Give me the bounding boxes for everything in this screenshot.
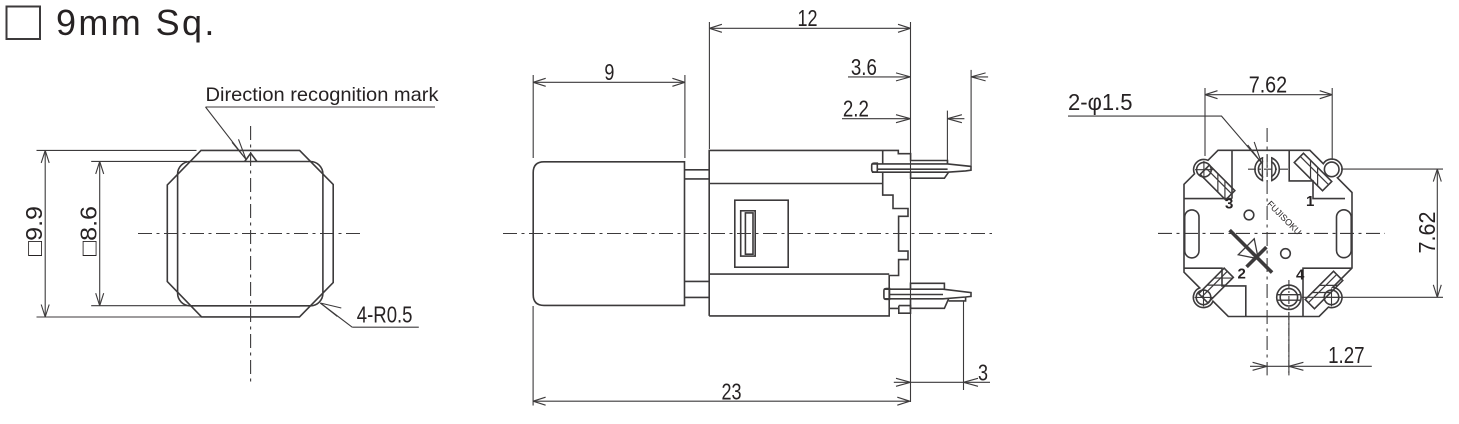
svg-text:23: 23	[722, 378, 742, 404]
svg-text:□9.9: □9.9	[21, 206, 47, 256]
bottom terminal plate above	[911, 283, 945, 289]
svg-text:1.27: 1.27	[1328, 342, 1365, 368]
svg-text:3: 3	[978, 359, 988, 385]
direction recognition mark triangle	[245, 153, 257, 161]
main octagon outline	[1184, 150, 1352, 316]
dim 7.62 top line	[1205, 94, 1332, 96]
pad 4 hatched	[1305, 271, 1342, 308]
dim 8.6 extension bottom	[91, 305, 187, 307]
header square symbol	[7, 7, 41, 40]
pad 1 hatched	[1294, 153, 1331, 190]
corner plateau TL	[1184, 150, 1232, 198]
vertical centerline	[250, 126, 252, 385]
horizontal centerline	[1158, 232, 1385, 234]
dim 12 ext left	[708, 22, 710, 149]
top terminal plate below	[911, 172, 949, 178]
dim 8.6 line with arrows	[99, 161, 101, 305]
vertical centerline	[1266, 128, 1268, 375]
svg-text:9: 9	[604, 59, 614, 85]
svg-text:4-R0.5: 4-R0.5	[357, 301, 413, 327]
bottom terminal tip notch	[949, 297, 966, 301]
svg-text:9mm Sq.: 9mm Sq.	[56, 2, 217, 43]
dim 23 ext left	[532, 306, 534, 406]
leader 2-phi1.5	[1068, 116, 1261, 162]
left oval slot	[1185, 210, 1199, 258]
corner circle pin4	[1324, 290, 1339, 305]
corner circle pin3	[1197, 162, 1212, 177]
body divider bottom	[709, 273, 889, 275]
dim 3.6 line	[848, 76, 988, 78]
body inner slider	[741, 211, 756, 256]
dim 9 ext lines	[533, 75, 685, 158]
bottom terminal inner line	[890, 294, 944, 296]
button cap rounded square	[178, 162, 323, 306]
svg-text:12: 12	[798, 5, 818, 31]
body outline	[709, 150, 947, 316]
pad 2 hatched	[1199, 268, 1234, 303]
long extension line at body right	[910, 22, 912, 402]
dim 7.62 right line	[1436, 169, 1438, 297]
horizontal centerline	[138, 233, 360, 235]
body inner window	[735, 200, 788, 267]
dim 7.62 right ext lines	[1302, 169, 1443, 297]
svg-text:4: 4	[1296, 267, 1305, 284]
bottom terminal plate below	[911, 299, 949, 309]
right oval slot	[1337, 210, 1352, 258]
svg-text:Direction recognition mark: Direction recognition mark	[206, 84, 439, 106]
dim 2.2 right ext	[946, 111, 948, 164]
dim 3.6 right ext	[970, 70, 972, 166]
top terminal hook	[872, 163, 878, 172]
corner plateau BL staircase	[1184, 268, 1246, 316]
dim 23 line	[533, 400, 910, 402]
horizontal centerline	[503, 233, 992, 235]
dim 3 line	[894, 381, 990, 383]
bottom screw vertical centerline	[1288, 280, 1290, 375]
dim 7.62 top ext lines	[1205, 88, 1332, 160]
small circle A	[1244, 210, 1254, 220]
body inner slider detail	[745, 213, 753, 254]
top hole horizontal centerline	[1248, 168, 1291, 170]
neck band top	[685, 170, 710, 179]
dim 3 right ext	[963, 301, 965, 390]
neck band bottom	[685, 281, 710, 297]
svg-text:3: 3	[1225, 196, 1233, 213]
dim 9 line	[533, 81, 685, 83]
svg-text:2-φ1.5: 2-φ1.5	[1068, 89, 1133, 115]
top hole phi1.5	[1255, 157, 1279, 181]
dim 8.6 extension top	[91, 160, 187, 162]
dim 2.2 line	[842, 118, 964, 120]
bottom terminal hook	[884, 289, 890, 300]
small circle B	[1281, 249, 1291, 259]
dim 9.9 extension top	[37, 149, 197, 151]
svg-text:1: 1	[1306, 193, 1314, 210]
top terminal strip	[872, 164, 971, 172]
svg-text:7.62: 7.62	[1414, 212, 1440, 254]
svg-text:7.62: 7.62	[1249, 71, 1288, 97]
frame octagon	[167, 150, 333, 317]
corner circle pin1	[1324, 162, 1339, 177]
corner plateau TR staircase	[1289, 150, 1345, 198]
dim 9.9 line with arrows	[44, 150, 46, 317]
svg-text:FUJISOKU: FUJISOKU	[1265, 199, 1303, 237]
svg-text:□8.6: □8.6	[76, 206, 102, 256]
svg-text:2.2: 2.2	[843, 96, 869, 122]
svg-text:3.6: 3.6	[851, 54, 877, 80]
corner circle pin2	[1196, 290, 1211, 305]
dim 12 line	[709, 27, 910, 29]
dim 1.27 ext	[1288, 312, 1290, 375]
pad 3 hatched	[1200, 165, 1235, 200]
corner plateau BR	[1303, 268, 1352, 316]
bottom screw	[1277, 285, 1301, 309]
top terminal inner line	[877, 168, 947, 170]
cap side profile	[533, 162, 684, 306]
bottom-right step box	[889, 306, 910, 314]
dim 9.9 extension bottom	[37, 316, 202, 318]
bottom terminal strip	[884, 289, 971, 299]
body divider top	[709, 183, 882, 185]
diode symbol	[1220, 220, 1282, 282]
svg-text:2: 2	[1238, 266, 1246, 283]
dim 1.27 line	[1250, 365, 1372, 367]
